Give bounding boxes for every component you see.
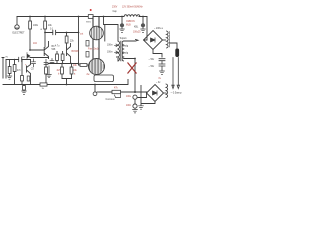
svg-text:BC548: BC548: [72, 51, 80, 53]
red X mark: [128, 63, 137, 74]
svg-text:50wdg: 50wdg: [122, 46, 129, 48]
relay box K1: [94, 75, 114, 82]
varistor RV1: [121, 17, 123, 24]
resistor R12: [40, 83, 47, 86]
capacitor C5: [19, 57, 22, 61]
wire mic drop: [16, 17, 18, 25]
svg-text:4.7u: 4.7u: [55, 46, 60, 48]
capacitor C4: [50, 59, 54, 64]
resistor R2: [44, 17, 46, 22]
svg-text:2w: 2w: [87, 74, 90, 76]
svg-text:100m: 100m: [107, 45, 113, 47]
resistor R7: [71, 64, 73, 68]
wire x135 down: [134, 59, 136, 93]
labels black: [6, 11, 182, 101]
wire line-in: [6, 59, 31, 61]
output arrow AR1: [172, 58, 174, 89]
wire t1 bottom: [117, 57, 136, 61]
capacitor C3: [44, 59, 48, 64]
wire bridge2 bottom: [141, 86, 155, 106]
wire q3 base: [21, 59, 23, 61]
transformer T1: [118, 41, 124, 61]
led LED1: [94, 85, 96, 93]
junction dots: [14, 16, 144, 93]
svg-text:ELECTRET: ELECTRET: [13, 33, 26, 35]
resistor R6: [61, 64, 63, 68]
bridge rectifier BR2: [147, 85, 164, 102]
wire to bridge1: [144, 17, 148, 41]
red dot fuse: [90, 9, 92, 11]
wire fan leads: [93, 39, 99, 59]
wire bottom rail right: [100, 91, 147, 93]
svg-text:~ 230v a: ~ 230v a: [154, 28, 163, 30]
resistor R9: [9, 60, 11, 67]
capacitor C9: [133, 95, 137, 99]
capacitor C8: [159, 64, 165, 70]
resistor R13: [27, 76, 30, 81]
capacitor C7: [159, 59, 165, 64]
svg-text:230V: 230V: [112, 6, 118, 8]
resistor R4: [56, 54, 59, 61]
svg-text:KBL: KBL: [134, 27, 139, 29]
svg-text:out: out: [80, 33, 84, 36]
wire signal: [45, 32, 79, 34]
svg-text:Common: Common: [106, 99, 116, 101]
secondary winding L3: [166, 84, 168, 98]
wire bridge1 right: [163, 39, 166, 41]
transistor Q3: [27, 60, 31, 85]
svg-text:~ 50v: ~ 50v: [149, 66, 155, 68]
ground G7: [139, 106, 144, 109]
primary winding L1: [124, 15, 140, 17]
capacitor C6: [45, 64, 47, 68]
svg-text:~ 50v: ~ 50v: [149, 59, 155, 61]
svg-text:100u25: 100u25: [133, 32, 141, 34]
microphone MIC1: [15, 25, 19, 29]
capacitor C12: [86, 52, 89, 58]
plug P1: [175, 49, 179, 58]
svg-text:Fan (2nd): Fan (2nd): [88, 48, 99, 51]
wire bridge1 bottom: [153, 50, 162, 58]
transistor Q2: [44, 42, 48, 59]
capacitor C11: [86, 41, 89, 47]
input terminal J1: [2, 58, 6, 79]
tap arrow A1: [115, 44, 119, 47]
diode D5: [27, 53, 30, 60]
wire top rail: [17, 16, 147, 18]
resistor R8: [79, 64, 81, 66]
svg-text:100n: 100n: [126, 105, 132, 107]
ground G8: [133, 108, 138, 113]
ground G4: [120, 27, 125, 32]
ground G2: [47, 66, 52, 78]
output arrow AR2: [177, 58, 179, 89]
wire bridge2 left: [138, 93, 147, 98]
wire bottom rail left: [3, 80, 128, 85]
svg-text:MLB: MLB: [126, 25, 131, 27]
component X1: [23, 85, 25, 86]
fuse F1: [88, 15, 93, 19]
svg-text:Topwin: Topwin: [120, 38, 128, 40]
svg-text:100m: 100m: [107, 52, 113, 54]
capacitor C2: [32, 59, 36, 67]
wire long vertical: [78, 17, 80, 66]
svg-text:12V 300mA 50/60Hz: 12V 300mA 50/60Hz: [122, 5, 144, 8]
svg-text:BC: BC: [52, 46, 56, 48]
varistor RV2: [142, 17, 144, 24]
svg-text:OMRON: OMRON: [126, 21, 135, 23]
bridge rectifier BR1: [144, 31, 163, 50]
fan M2: [89, 59, 105, 75]
ground G3: [22, 90, 27, 94]
capacitor C10: [133, 104, 137, 108]
ground G1: [7, 76, 12, 79]
wire emitter join: [62, 79, 72, 85]
wire 104 stub: [104, 25, 106, 42]
preset VR1: [97, 91, 100, 93]
resistor R3: [66, 33, 68, 37]
svg-text:~ 0.5amp: ~ 0.5amp: [171, 91, 182, 95]
wire to plug: [170, 43, 178, 49]
resistor R5: [61, 54, 64, 61]
ground G6: [160, 70, 165, 75]
fan M1: [90, 17, 104, 40]
svg-text:100u: 100u: [126, 96, 132, 98]
resistor R10: [14, 60, 16, 65]
transistor Q1: [67, 44, 71, 64]
wire t1 top right: [124, 39, 138, 41]
wire to vert 103: [104, 17, 119, 42]
labels red: [25, 5, 162, 107]
ground G5: [141, 27, 146, 32]
resistor R1: [29, 17, 31, 22]
resistor R11: [21, 60, 23, 76]
wire base Q2: [30, 50, 49, 58]
wire mid rail: [48, 63, 79, 65]
capacitor C1: [53, 30, 56, 34]
secondary winding L2: [167, 31, 169, 48]
svg-text:SW1: SW1: [86, 22, 92, 24]
tap arrow A2: [115, 51, 119, 54]
svg-text:30wdg: 30wdg: [122, 53, 129, 55]
